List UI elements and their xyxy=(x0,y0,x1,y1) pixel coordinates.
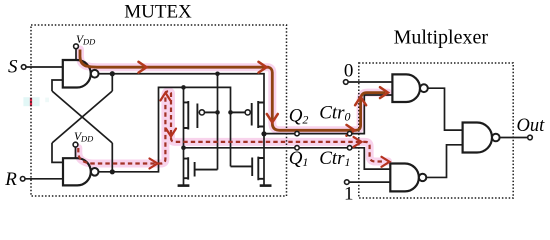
wire U4 output to U5 xyxy=(426,145,462,178)
transistor M4 NMOS right xyxy=(258,157,264,181)
svg-text:S: S xyxy=(8,56,18,77)
junction node U1 output xyxy=(110,71,115,76)
junction node Q2 xyxy=(261,131,266,136)
wire U1 output to Q2 vertical xyxy=(99,74,264,186)
Multiplexer dashed box xyxy=(359,63,513,198)
svg-text:0: 0 xyxy=(344,60,354,81)
wire U3 output to U5 xyxy=(428,88,463,130)
arrowhead right at mux entry xyxy=(380,87,388,98)
MUTEX dashed box xyxy=(31,25,287,196)
terminal Out xyxy=(528,135,533,140)
svg-text:Ctr0: Ctr0 xyxy=(319,103,350,124)
wire VDD1 stub xyxy=(75,49,77,61)
arrowhead right on dashed path at mux entry xyxy=(382,157,390,167)
svg-text:VDD: VDD xyxy=(76,34,96,47)
junction node M1 gate xyxy=(215,110,220,115)
wire U1 output stub down xyxy=(111,74,113,91)
arrowhead right on solid path before turn xyxy=(259,62,267,73)
probe circle Q2 b xyxy=(347,131,351,135)
wire U2 output up to filter rail xyxy=(99,87,231,171)
terminal 0 xyxy=(344,80,349,85)
wire S input xyxy=(26,66,63,68)
ground right xyxy=(260,184,272,187)
svg-text:1: 1 xyxy=(344,183,354,204)
wire filter left vertical rail xyxy=(183,87,185,185)
junction node rail left xyxy=(181,85,186,90)
solid brown path from VDD1 through Q2 to mux xyxy=(80,50,386,131)
junction node M2 gate xyxy=(228,110,233,115)
svg-text:MUTEX: MUTEX xyxy=(124,2,192,23)
arrowhead down on dashed path xyxy=(166,129,176,137)
svg-text:VDD: VDD xyxy=(74,131,94,144)
probe circle Q2 a xyxy=(295,131,299,135)
arrowhead up on solid path xyxy=(355,97,366,105)
arrowhead right on dashed path lower xyxy=(150,159,158,169)
terminal VDD2 xyxy=(73,142,78,147)
svg-text:R: R xyxy=(4,169,17,190)
svg-text:Q1: Q1 xyxy=(289,148,309,169)
wire mux input 0 xyxy=(348,81,392,83)
wire node Q2 horizontal to multiplexer xyxy=(264,95,392,134)
wire node Q1 horizontal to multiplexer xyxy=(184,148,391,169)
svg-text:Q2: Q2 xyxy=(289,106,309,127)
wire gate lead vertical from U1 output to M1/M3 gates xyxy=(217,74,219,170)
arrowhead down on solid path xyxy=(267,114,278,122)
arrowhead up on dashed path xyxy=(160,93,170,101)
svg-text:Multiplexer: Multiplexer xyxy=(394,26,489,48)
wire U2 output stub up xyxy=(111,143,113,172)
nand gate U5 mux output xyxy=(463,123,492,153)
terminal 1 xyxy=(345,180,350,185)
wire mux input 1 xyxy=(349,181,390,183)
arrowhead right on solid path on Q2 wire xyxy=(347,125,355,136)
svg-text:Out: Out xyxy=(517,116,546,136)
nand gate U2 bottom mutex xyxy=(63,158,91,185)
arrowhead right on solid path xyxy=(139,62,147,73)
transistor M2 PMOS right xyxy=(258,101,264,128)
wire Out output xyxy=(500,137,528,139)
ground left xyxy=(178,184,190,187)
wire cross-coupling diagonal from U2 output to U1 input xyxy=(52,91,112,143)
probe circle Q1 a xyxy=(295,146,299,150)
nand gate U1 top mutex xyxy=(63,60,91,88)
wire U1 lower input from cross-coupling xyxy=(52,80,63,91)
nand gate U3 mux top xyxy=(392,74,420,102)
wire U2 upper input from cross-coupling xyxy=(52,143,63,162)
highlight glow solid path xyxy=(80,50,388,131)
dashed red metastable path from VDD2 xyxy=(78,91,385,163)
svg-text:Ctr1: Ctr1 xyxy=(319,148,350,169)
wire cross-coupling diagonal from U1 output to U2 input xyxy=(52,91,112,143)
junction node gate lead top xyxy=(215,71,220,76)
highlight artifact on MUTEX box left edge xyxy=(23,97,39,106)
transistor M3 NMOS left xyxy=(184,157,189,179)
junction node U2 output xyxy=(110,169,115,174)
terminal VDD1 xyxy=(74,44,79,49)
junction node Q1 xyxy=(181,146,186,151)
wire R input xyxy=(25,178,63,180)
wire gate lead vertical to M2/M4 gates xyxy=(230,112,232,166)
wire VDD2 stub xyxy=(75,147,77,158)
probe circle Q1 b xyxy=(347,146,351,150)
terminal R xyxy=(20,177,25,182)
highlight glow dashed path xyxy=(78,91,388,163)
terminal S xyxy=(21,65,26,70)
transistor M1 PMOS left xyxy=(184,101,189,130)
arrowhead right on dashed path at Ctr0 xyxy=(354,137,362,147)
nand gate U4 mux bottom xyxy=(390,164,419,192)
